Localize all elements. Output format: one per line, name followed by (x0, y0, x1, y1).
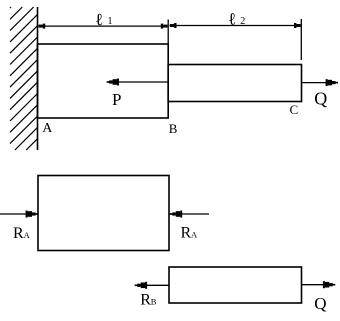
svg-text:A: A (42, 121, 53, 136)
svg-text:Q: Q (314, 294, 326, 313)
svg-text:R: R (181, 224, 192, 241)
svg-text:2: 2 (240, 16, 245, 27)
svg-text:ℓ: ℓ (95, 10, 103, 29)
svg-text:C: C (290, 102, 299, 117)
svg-text:A: A (191, 229, 198, 239)
svg-text:B: B (169, 121, 178, 136)
svg-text:Q: Q (314, 88, 327, 108)
svg-text:R: R (13, 225, 24, 242)
svg-text:P: P (112, 90, 121, 109)
svg-text:R: R (140, 291, 151, 308)
svg-text:B: B (151, 296, 157, 306)
svg-text:ℓ: ℓ (228, 10, 236, 29)
svg-text:1: 1 (108, 16, 113, 27)
svg-text:A: A (24, 230, 31, 240)
